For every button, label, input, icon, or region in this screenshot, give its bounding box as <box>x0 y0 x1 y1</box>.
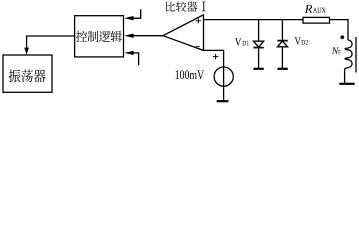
label NF <box>332 47 339 54</box>
arrowhead into oscillator <box>24 48 29 55</box>
label VD1 <box>235 38 241 45</box>
minus sign inverting input <box>196 45 200 47</box>
diode VD1 cathode lead <box>258 47 260 68</box>
polarity dot <box>340 35 344 39</box>
plus sign of source <box>213 54 218 59</box>
diode VD1 anode lead <box>258 20 260 42</box>
control logic label 控制逻辑 <box>76 31 122 42</box>
ground below inductor <box>339 83 354 85</box>
diode VD1 cathode bar <box>253 47 263 49</box>
diode VD1 triangle <box>254 41 264 47</box>
inductor bottom lead <box>344 70 346 83</box>
plus sign noninverting input <box>196 18 201 23</box>
ground below VD2 <box>277 68 287 70</box>
oscillator box <box>3 55 52 92</box>
wire control logic to oscillator <box>27 36 75 48</box>
inductor NF coil <box>345 40 352 70</box>
control logic box <box>75 16 124 57</box>
label 100mV <box>176 70 204 79</box>
comparator label 比较器 <box>166 1 197 11</box>
label VD2 <box>295 37 301 44</box>
resistor RAUX body <box>303 17 330 23</box>
wire top input stub <box>133 9 140 18</box>
diode VD2 cathode lead <box>281 20 283 41</box>
voltage source V1 circle <box>214 67 233 86</box>
diode VD2 anode lead <box>281 47 283 68</box>
op-amp U1 comparator triangle <box>163 15 204 51</box>
wire source lead through circle to ground <box>223 67 225 100</box>
diode VD2 cathode bar <box>277 40 287 42</box>
wire inverting input to source <box>204 50 224 67</box>
wire comparator output to control box <box>133 35 163 37</box>
wire rail right of resistor down to inductor <box>330 20 349 41</box>
ground below source <box>217 100 229 102</box>
comparator label numeral I <box>202 2 206 12</box>
ground below VD1 <box>253 68 263 70</box>
wire noninverting input top rail <box>204 19 304 21</box>
arrowhead top into control box <box>124 16 133 20</box>
oscillator label 振荡器 <box>9 69 46 82</box>
arrowhead bottom into control box <box>124 51 133 55</box>
diode VD2 triangle <box>278 41 288 47</box>
label RAUX <box>305 5 313 13</box>
wire bottom input stub <box>133 53 138 65</box>
transformer core line <box>355 37 357 73</box>
arrowhead middle into control box <box>124 34 133 38</box>
